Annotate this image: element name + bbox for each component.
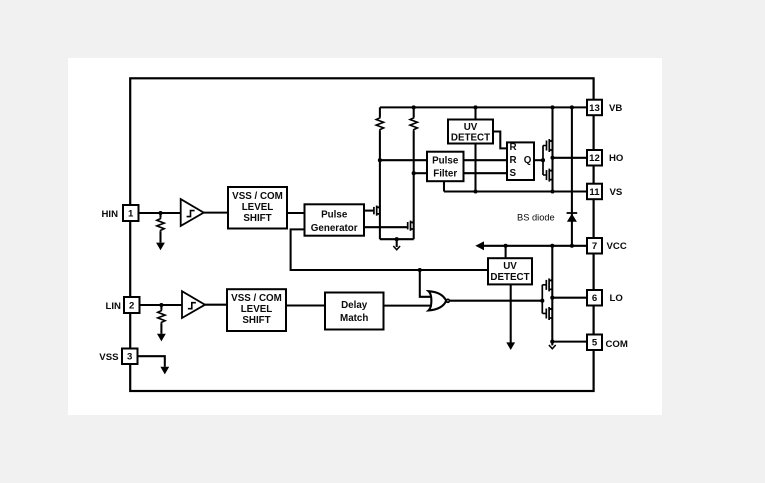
open arrow low-side source to COM [549, 345, 556, 349]
wire low-side totem rail [551, 246, 553, 346]
IC package border [130, 78, 593, 391]
VCC rail from pin 7 [478, 245, 587, 247]
svg-text:13: 13 [589, 103, 600, 114]
box U10 UV detect low side [488, 258, 532, 284]
svg-text:S: S [510, 168, 517, 179]
node VB-UV [473, 105, 477, 109]
arrow VCC rail left end [475, 241, 484, 250]
wire R1 tap to pulse filter [380, 159, 427, 161]
transistor Q4 high-side driver N [547, 169, 554, 182]
svg-text:12: 12 [589, 153, 600, 164]
node VB-totem [550, 105, 554, 109]
wire bootstrap diode branch [571, 107, 573, 245]
wire R2 to level-shift FET drain rail [413, 130, 415, 239]
wire pulse generator feedback to low-side UV detect [291, 229, 488, 270]
svg-text:11: 11 [589, 187, 600, 198]
VS net line to pin 11 [444, 190, 587, 192]
node LIN junction [159, 303, 163, 307]
wire R2 tap to pulse filter [414, 172, 427, 174]
pin 12 HO [587, 150, 624, 166]
wire UV detect low to ground [510, 284, 512, 342]
svg-text:LEVEL: LEVEL [242, 202, 274, 213]
transistor Q2 level-shift LDMOS [408, 220, 415, 231]
svg-text:3: 3 [127, 352, 132, 363]
pin 5 COM [587, 335, 628, 351]
node VCC-diode [570, 244, 574, 248]
svg-text:VB: VB [609, 103, 622, 114]
VB rail [380, 106, 587, 108]
node VB-R1 [412, 105, 416, 109]
pin 13 VB [587, 100, 622, 116]
svg-text:Generator: Generator [311, 223, 358, 234]
ground arrow VSS [160, 367, 169, 375]
svg-text:COM: COM [606, 339, 628, 350]
ground arrow below HIN resistor [156, 243, 165, 251]
node gate bus low [540, 299, 544, 303]
wire common source line of level shift FETs [380, 238, 414, 240]
svg-text:2: 2 [129, 300, 134, 311]
node R2 pulse filter tap [412, 171, 416, 175]
pin 1 HIN [101, 205, 138, 221]
wire pulse filter to latch R [464, 159, 508, 161]
transistor Q5 low-side driver P [546, 278, 553, 291]
svg-text:Match: Match [340, 313, 368, 324]
node VCC-UV2 [504, 244, 508, 248]
wire feedback branch to OR gate input [420, 270, 432, 297]
node VB-diode [570, 105, 574, 109]
svg-text:BS diode: BS diode [517, 212, 555, 222]
svg-text:UV: UV [464, 122, 478, 133]
wire UV detect high to VS line [474, 144, 476, 192]
node VS-UV [473, 189, 477, 193]
wire pulse filter bottom to VS line [443, 181, 445, 191]
svg-text:7: 7 [592, 241, 597, 252]
svg-text:LO: LO [610, 293, 624, 304]
svg-text:HO: HO [609, 153, 624, 164]
wire OR gate output to low-side gate bus [449, 300, 542, 302]
low-side gate bus [541, 285, 543, 314]
wire VSS pin to ground [138, 356, 165, 367]
svg-text:6: 6 [592, 293, 597, 304]
node gate bus Q [541, 158, 545, 162]
wire COM line to pin 5 [552, 341, 587, 343]
wire schmitt2 to level shift [205, 304, 227, 306]
open arrow level shift source [393, 246, 400, 250]
svg-text:VCC: VCC [607, 241, 627, 252]
wire HO to pin 12 [553, 157, 588, 159]
box U3 VSS/COM level shift (HIN) [228, 187, 287, 229]
svg-text:VSS: VSS [99, 352, 119, 363]
wire high-side totem rail [551, 107, 553, 191]
pin 7 VCC [587, 238, 627, 254]
svg-text:Filter: Filter [433, 169, 457, 180]
svg-text:UV: UV [503, 261, 517, 272]
resistor on HIN input [159, 213, 161, 218]
box U9 delay match [325, 293, 384, 330]
wire HIN pin to schmitt [139, 212, 181, 214]
node feedback junction [418, 268, 422, 272]
svg-text:LIN: LIN [106, 301, 122, 312]
transistor Q6 low-side driver N [546, 307, 553, 320]
wire VB rail into UV detect high [474, 107, 476, 119]
white canvas of diagram image [68, 58, 662, 415]
resistor on LIN input [160, 305, 162, 310]
schmitt buffer U1 (HIN) [181, 199, 204, 226]
wire level shift1 to pulse generator [287, 212, 305, 214]
wire delay match to OR gate [384, 305, 432, 307]
ground arrow UV detect low [506, 342, 515, 350]
ground arrow below LIN resistor [157, 334, 166, 342]
wire R1 to level-shift FET drain rail [379, 130, 381, 239]
node COM junction [550, 340, 554, 344]
box U7 RS latch [507, 142, 534, 180]
transistor Q1 level-shift LDMOS [374, 205, 381, 216]
svg-text:VSS / COM: VSS / COM [232, 191, 283, 202]
svg-text:R: R [510, 155, 517, 166]
high-side gate bus [542, 146, 544, 176]
schmitt buffer U2 (LIN) [182, 291, 205, 318]
svg-text:VSS / COM: VSS / COM [231, 293, 282, 304]
node R1 pulse filter tap [378, 158, 382, 162]
svg-text:Delay: Delay [341, 300, 368, 311]
box U5 pulse filter [427, 152, 464, 182]
pin 2 LIN [106, 297, 140, 313]
node source junction [395, 237, 399, 241]
svg-text:SHIFT: SHIFT [242, 315, 270, 326]
svg-text:HIN: HIN [101, 209, 118, 220]
node VS-totem [550, 189, 554, 193]
svg-text:SHIFT: SHIFT [243, 213, 271, 224]
pin 11 VS [587, 184, 623, 200]
wire UV detect high output to latch R1 [493, 132, 507, 149]
wire pulse gen to Q1 gate [364, 210, 374, 212]
transistor Q3 high-side driver P [547, 139, 554, 152]
OR gate G1 low-side [429, 291, 450, 310]
wire LO to pin 6 [552, 297, 587, 299]
resistor R1 high-voltage load [379, 107, 381, 117]
box U8 VSS/COM level shift (LIN) [227, 289, 286, 331]
wire stub to VS arrow [396, 239, 398, 247]
svg-text:R: R [510, 142, 517, 153]
node HO tap [550, 156, 554, 160]
svg-text:DETECT: DETECT [490, 272, 529, 283]
wire pulse gen to Q2 gate [364, 226, 408, 228]
resistor R2 high-voltage load [413, 107, 415, 117]
wire schmitt1 to level shift [204, 212, 228, 214]
wire VCC into UV detect low [505, 246, 507, 258]
svg-text:DETECT: DETECT [451, 132, 490, 143]
svg-text:Pulse: Pulse [432, 156, 459, 167]
diode BS bootstrap [567, 212, 578, 214]
wire pulse filter to latch S [464, 172, 508, 174]
box U4 pulse generator [305, 204, 365, 235]
box U6 UV detect high side [448, 120, 493, 144]
wire LIN pin to schmitt [140, 304, 183, 306]
node HIN junction [158, 211, 162, 215]
wire level shift2 to delay match [286, 304, 325, 306]
node VCC-totem [550, 244, 554, 248]
svg-text:LEVEL: LEVEL [241, 304, 273, 315]
svg-text:Q: Q [524, 155, 532, 166]
svg-text:1: 1 [128, 208, 134, 219]
wire latch Q to high-side gate bus [534, 159, 543, 161]
pin 3 VSS [99, 349, 137, 365]
node LO tap [550, 296, 554, 300]
svg-text:Pulse: Pulse [321, 209, 348, 220]
svg-text:VS: VS [610, 187, 623, 198]
pin 6 LO [587, 290, 623, 306]
svg-text:5: 5 [592, 338, 598, 349]
